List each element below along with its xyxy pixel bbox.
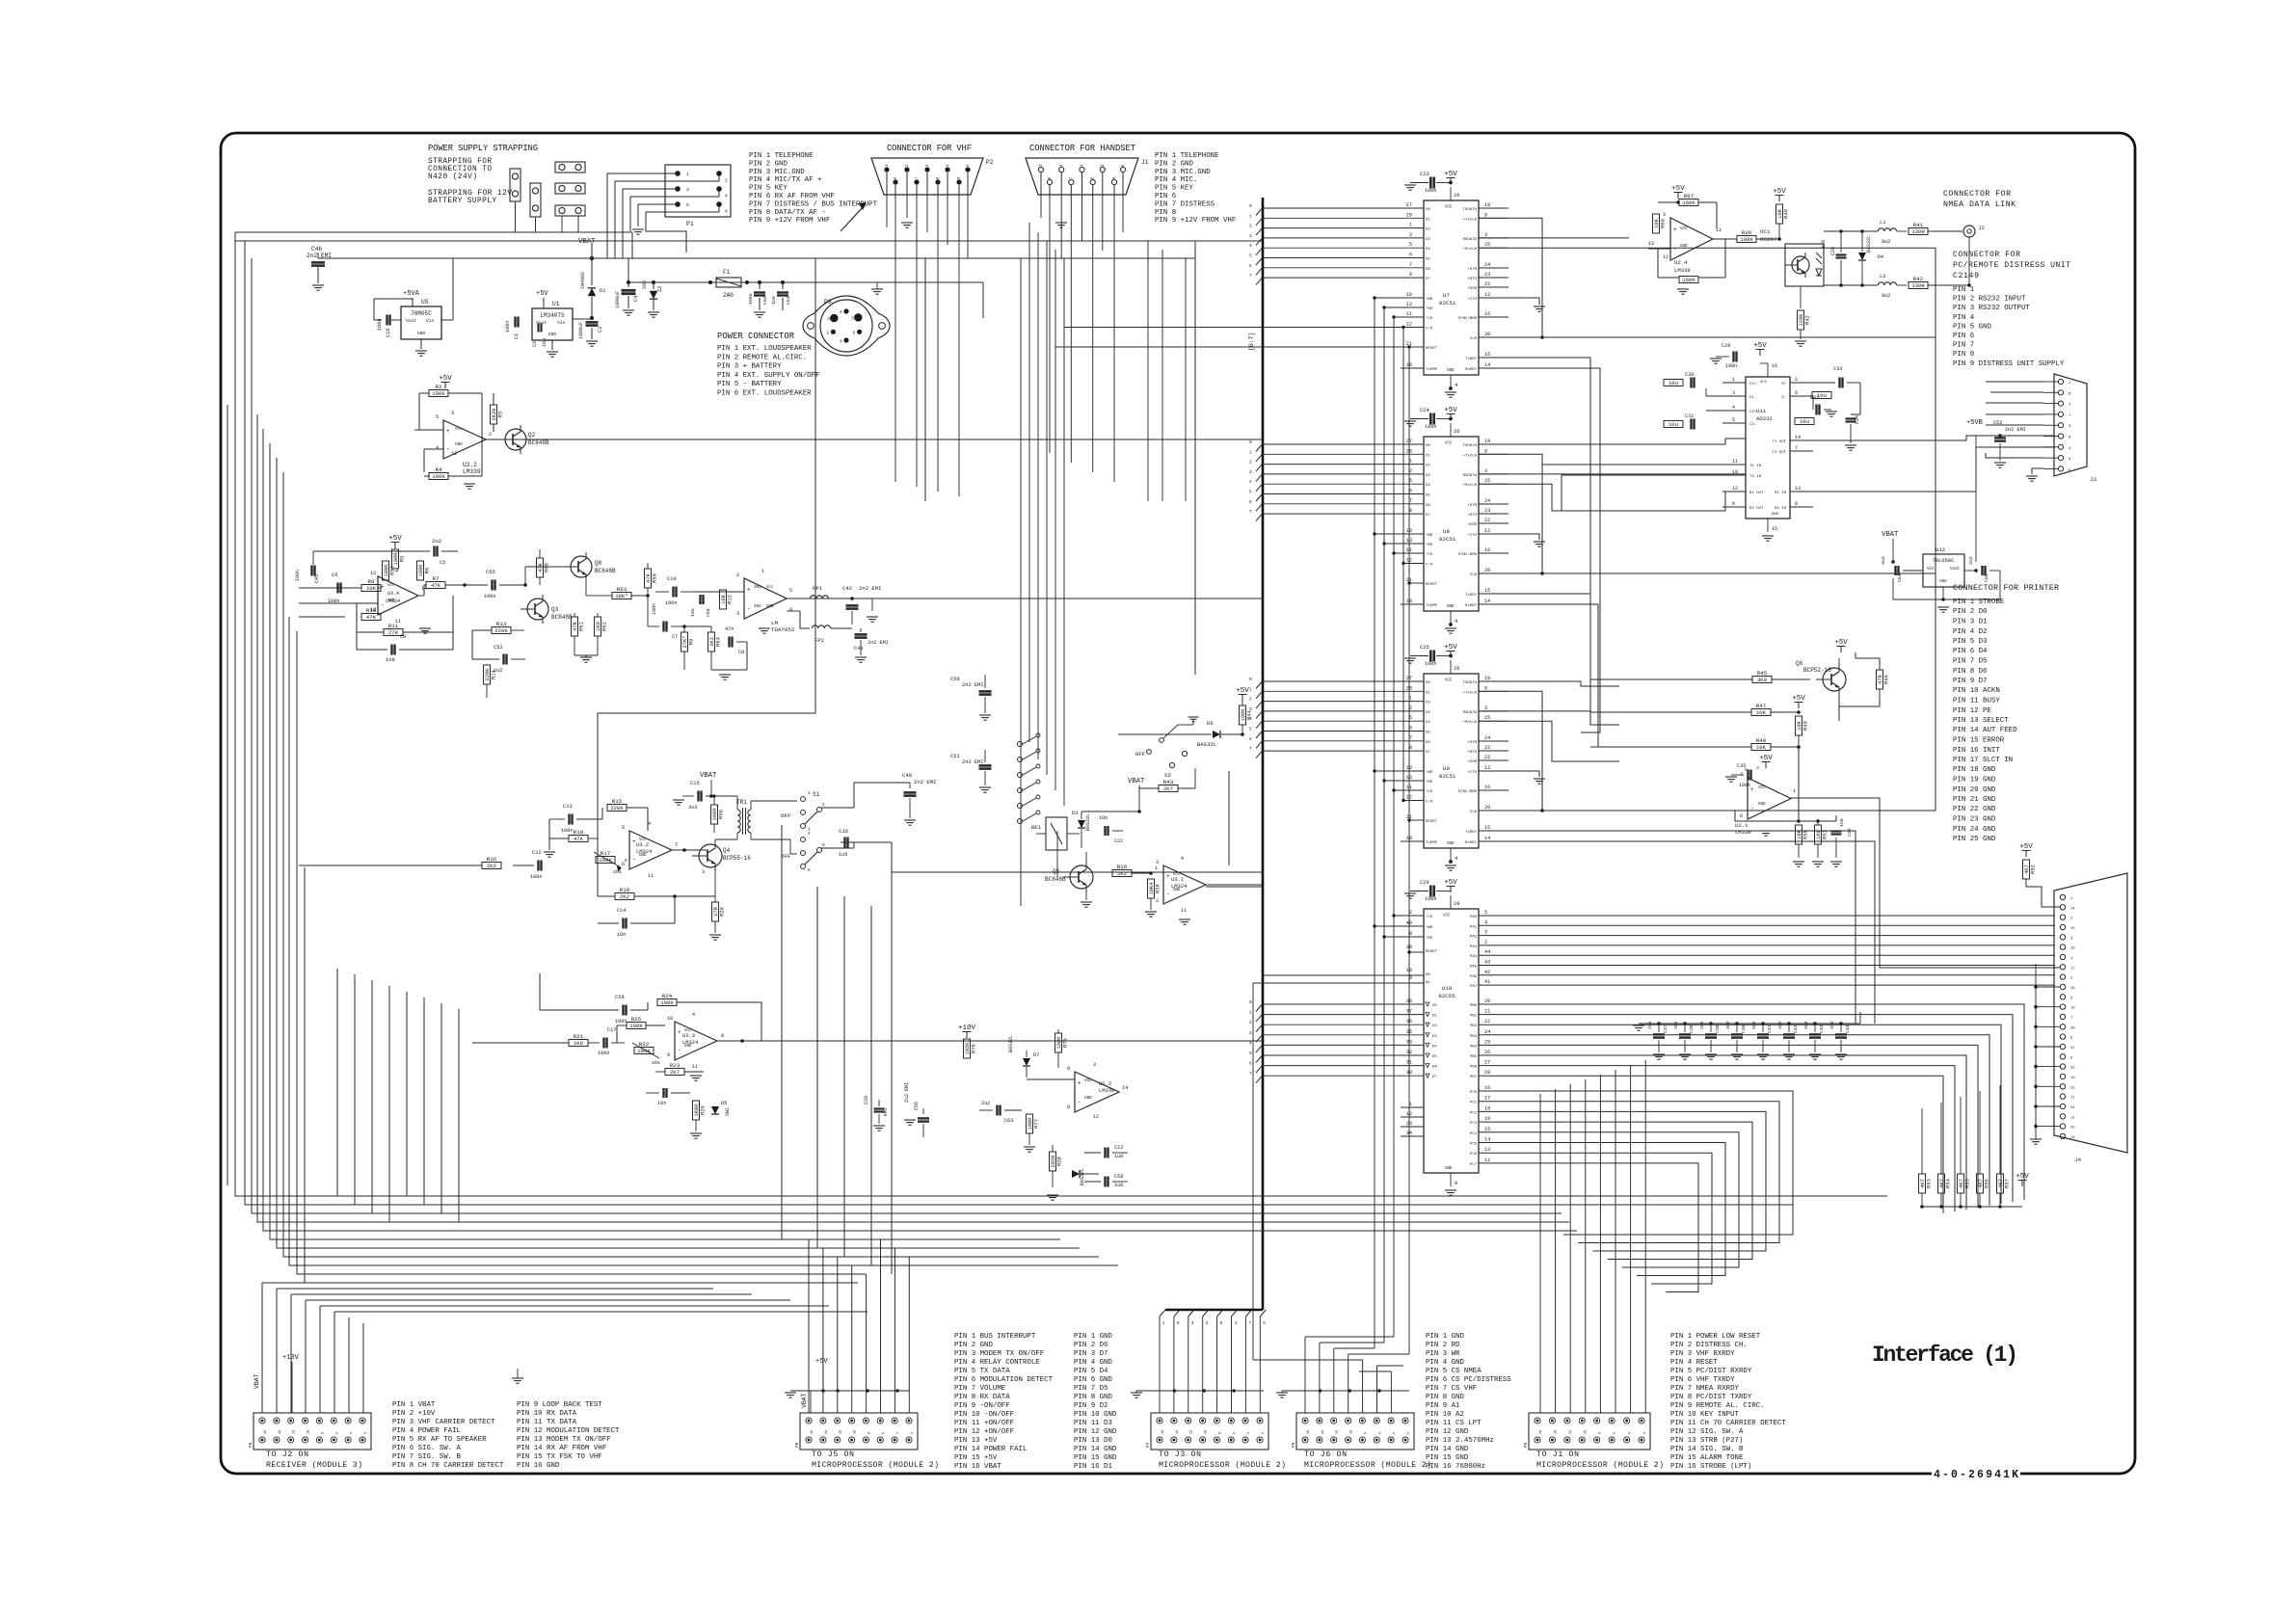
svg-text:POWER SUPPLY STRAPPING: POWER SUPPLY STRAPPING	[428, 144, 538, 153]
svg-text:R1 OUT: R1 OUT	[1749, 492, 1764, 495]
svg-text:24: 24	[1484, 1029, 1490, 1035]
svg-text:100n: 100n	[1425, 661, 1436, 667]
svg-text:2u2: 2u2	[1968, 556, 1974, 565]
svg-text:4: 4	[840, 310, 842, 315]
ground Q4	[709, 934, 721, 936]
svg-text:10u: 10u	[542, 338, 547, 347]
svg-text:47K: 47K	[538, 562, 544, 572]
svg-text:RXDATA: RXDATA	[1463, 238, 1478, 242]
svg-text:2K2: 2K2	[487, 863, 496, 869]
svg-text:16: 16	[1161, 1430, 1165, 1434]
svg-text:PB5: PB5	[1470, 1055, 1478, 1059]
capacitor C18	[386, 315, 387, 326]
svg-text:13: 13	[1648, 241, 1654, 247]
svg-text:20: 20	[1484, 998, 1490, 1004]
svg-text:U2.2: U2.2	[463, 462, 477, 468]
svg-text:C38: C38	[1689, 1024, 1695, 1033]
wire bus turn	[1165, 1309, 1263, 1311]
svg-text:IN1: IN1	[754, 586, 761, 590]
svg-text:PIN 4 GND: PIN 4 GND	[1074, 1359, 1112, 1367]
svg-text:R2 OUT: R2 OUT	[1749, 507, 1764, 511]
svg-text:PIN 2 GND: PIN 2 GND	[1155, 160, 1193, 168]
svg-text:10: 10	[1732, 469, 1738, 475]
svg-text:VBAT: VBAT	[1882, 531, 1899, 539]
svg-text:3: 3	[827, 317, 830, 322]
svg-text:37: 37	[1406, 1009, 1412, 1015]
svg-text:C56: C56	[914, 1102, 920, 1110]
svg-text:2n2: 2n2	[1829, 1021, 1835, 1029]
svg-text:10: 10	[854, 1430, 858, 1434]
regulator U12 78L05AC	[1923, 554, 1964, 587]
svg-text:3: 3	[1484, 705, 1487, 711]
capacitor C52	[502, 654, 504, 665]
svg-text:2K2: 2K2	[620, 893, 629, 900]
svg-text:48: 48	[1406, 920, 1412, 926]
svg-text:18: 18	[2070, 987, 2075, 991]
ground C50	[979, 714, 991, 716]
wire s1 net	[821, 807, 854, 809]
svg-text:EMI: EMI	[883, 1107, 889, 1116]
resistor R9	[681, 632, 688, 652]
svg-text:R17: R17	[601, 850, 611, 857]
svg-text:PIN 10 ACKN: PIN 10 ACKN	[1953, 687, 2000, 695]
svg-text:PIN 5 TX DATA: PIN 5 TX DATA	[954, 1368, 1010, 1375]
svg-text:FP1: FP1	[813, 585, 823, 592]
svg-text:PIN 6 VHF TXRDY: PIN 6 VHF TXRDY	[1670, 1376, 1735, 1384]
svg-text:D3: D3	[1426, 238, 1430, 242]
svg-text:VCC: VCC	[1760, 381, 1768, 385]
svg-text:PIN 9 +12V FROM VHF: PIN 9 +12V FROM VHF	[749, 217, 830, 225]
svg-text:3: 3	[702, 869, 705, 875]
svg-text:VBAT: VBAT	[1128, 778, 1145, 785]
svg-text:Vout: Vout	[1950, 568, 1961, 572]
svg-text:PIN 5 KEY: PIN 5 KEY	[1155, 185, 1193, 193]
svg-text:PIN 6 SIG. SW. A: PIN 6 SIG. SW. A	[392, 1445, 462, 1452]
svg-text:1: 1	[1249, 687, 1252, 692]
svg-text:PIN 2 GND: PIN 2 GND	[749, 160, 788, 168]
wire analog drops	[336, 969, 338, 1196]
svg-text:D5: D5	[1426, 732, 1430, 735]
svg-text:100n: 100n	[1425, 188, 1436, 194]
svg-text:20: 20	[1484, 805, 1490, 811]
ground C13	[544, 851, 555, 853]
svg-text:PIN 4 GND: PIN 4 GND	[1426, 1359, 1464, 1367]
wire U7 rxclk net	[1479, 248, 1936, 337]
svg-text:*WR: *WR	[1426, 297, 1433, 302]
wire mid column	[1020, 258, 1022, 906]
svg-text:16: 16	[1539, 1430, 1543, 1434]
capacitor C4	[627, 280, 630, 284]
svg-text:2n2 EMI: 2n2 EMI	[914, 779, 937, 785]
svg-text:1: 1	[1155, 865, 1158, 871]
capacitor C42	[850, 597, 854, 600]
svg-text:42: 42	[1484, 970, 1490, 975]
svg-text:24: 24	[1484, 498, 1490, 504]
diode D7	[1023, 1058, 1030, 1066]
svg-text:OFF: OFF	[781, 812, 791, 819]
resistor R38	[1737, 236, 1756, 243]
svg-text:Q6: Q6	[1796, 660, 1803, 667]
svg-text:C58: C58	[1114, 1174, 1123, 1180]
svg-text:C13: C13	[563, 804, 573, 810]
svg-text:4: 4	[896, 1432, 900, 1434]
svg-text:-: -	[381, 601, 385, 608]
svg-text:BC848B: BC848B	[528, 439, 549, 446]
svg-text:R67: R67	[1684, 193, 1695, 200]
svg-text:+CTS: +CTS	[1467, 534, 1477, 538]
svg-text:C54: C54	[706, 608, 711, 617]
svg-text:R42: R42	[1805, 315, 1811, 325]
svg-text:PIN 14 GND: PIN 14 GND	[1074, 1446, 1117, 1453]
svg-text:PIN 7 DISTRESS / BUS INTERRU: PIN 7 DISTRESS / BUS INTERRUPT	[749, 200, 878, 208]
wire U7 txrdy net	[1479, 358, 1590, 679]
resistor R4	[429, 473, 448, 480]
svg-text:D0: D0	[1426, 681, 1430, 685]
IC U11 AD232	[1746, 377, 1790, 519]
svg-text:C1-: C1-	[1749, 396, 1756, 400]
svg-text:6: 6	[1795, 390, 1798, 396]
op-amp U2.3	[1075, 1072, 1119, 1112]
svg-text:5: 5	[822, 843, 825, 848]
svg-text:PIN 13 D0: PIN 13 D0	[1074, 1437, 1112, 1445]
svg-text:3u3: 3u3	[688, 805, 697, 811]
svg-text:LM324: LM324	[386, 599, 400, 604]
svg-text:PIN 15 ERROR: PIN 15 ERROR	[1953, 737, 2005, 745]
svg-text:C61: C61	[786, 296, 791, 305]
wire u21 minus	[1735, 810, 1748, 811]
svg-text:CLK: CLK	[1470, 337, 1478, 341]
capacitor C65	[1981, 566, 1983, 575]
svg-text:R4: R4	[436, 466, 442, 473]
svg-text:PIN 4 D2: PIN 4 D2	[1953, 628, 1987, 636]
strap pad C	[555, 162, 585, 173]
svg-text:D7: D7	[1033, 1052, 1039, 1058]
svg-text:12: 12	[1732, 486, 1738, 492]
svg-text:PIN 1 TELEPHONE: PIN 1 TELEPHONE	[1155, 152, 1219, 160]
ground C56	[904, 1119, 916, 1121]
ground U2.2	[464, 483, 475, 485]
svg-text:R46: R46	[1884, 675, 1890, 684]
svg-text:Z2: Z2	[657, 286, 663, 292]
ground P6	[785, 1392, 796, 1394]
svg-text:3K3: 3K3	[709, 637, 715, 647]
resistor R3	[491, 405, 497, 424]
svg-text:23: 23	[1484, 745, 1490, 751]
svg-text:PIN 14 RX AF FROM VHF: PIN 14 RX AF FROM VHF	[517, 1445, 606, 1452]
svg-text:2K20: 2K20	[492, 409, 497, 421]
svg-text:16: 16	[2070, 947, 2075, 951]
svg-text:2n2 EMI: 2n2 EMI	[868, 640, 889, 646]
svg-text:3: 3	[736, 611, 739, 617]
ground R26	[690, 1132, 702, 1134]
svg-text:31: 31	[1406, 1060, 1412, 1066]
svg-text:4K7: 4K7	[1998, 1179, 2004, 1188]
ground near P3	[871, 288, 883, 290]
svg-text:Interface (1): Interface (1)	[1872, 1343, 2018, 1368]
svg-text:Vcc: Vcc	[387, 584, 395, 588]
svg-text:3: 3	[1249, 1031, 1252, 1036]
resistor R41	[1909, 228, 1928, 235]
svg-text:C42: C42	[1793, 1024, 1799, 1033]
svg-text:C41: C41	[1767, 1024, 1773, 1033]
svg-text:D5: D5	[1426, 494, 1430, 498]
svg-text:D6: D6	[1207, 720, 1214, 727]
svg-text:4: 4	[1455, 383, 1457, 388]
svg-text:C36: C36	[1847, 828, 1853, 837]
svg-text:D0: D0	[1432, 1004, 1437, 1008]
wire strap pads	[561, 216, 563, 232]
svg-text:RESET: RESET	[1426, 820, 1438, 824]
wire c30 pins	[1722, 382, 1723, 384]
svg-text:3: 3	[1484, 232, 1487, 238]
svg-text:1K8: 1K8	[574, 1040, 583, 1047]
svg-text:11: 11	[1484, 1157, 1490, 1163]
wire u4 io	[694, 591, 744, 593]
svg-text:BC848B: BC848B	[595, 568, 616, 574]
diode D6	[1213, 731, 1220, 738]
svg-text:2: 2	[1249, 461, 1252, 466]
svg-text:1000uF: 1000uF	[615, 291, 621, 308]
svg-text:R15: R15	[612, 798, 623, 805]
svg-text:-: -	[1078, 1099, 1081, 1105]
svg-text:PC6: PC6	[1470, 1153, 1478, 1157]
wire u1 in	[573, 323, 592, 325]
svg-text:R45: R45	[1757, 670, 1768, 677]
svg-text:47K: 47K	[366, 614, 377, 621]
wire P5 drops	[261, 1283, 263, 1413]
connector J4	[2054, 873, 2127, 1153]
svg-text:R57: R57	[2005, 1179, 2011, 1188]
ground OC1	[1795, 340, 1806, 342]
svg-text:D6: D6	[1426, 504, 1430, 508]
svg-text:P7: P7	[1145, 1442, 1151, 1448]
svg-text:PIN 6: PIN 6	[1155, 193, 1176, 200]
svg-text:10K: 10K	[1797, 720, 1802, 730]
ground U12	[1937, 606, 1949, 608]
svg-text:5: 5	[1249, 491, 1252, 495]
svg-text:100n: 100n	[505, 321, 511, 333]
svg-text:TxRDY: TxRDY	[1465, 594, 1478, 598]
svg-text:4: 4	[436, 445, 439, 451]
svg-text:100K: 100K	[1056, 1036, 1062, 1050]
svg-text:C3: C3	[598, 327, 603, 333]
svg-text:330R: 330R	[1911, 228, 1925, 235]
svg-text:R20: R20	[720, 907, 726, 917]
resistor R20	[712, 902, 719, 921]
svg-text:3: 3	[1732, 390, 1735, 396]
svg-text:C40: C40	[1741, 1024, 1747, 1033]
svg-text:C52: C52	[494, 645, 503, 651]
svg-text:100K: 100K	[432, 473, 445, 480]
svg-text:10u: 10u	[1669, 380, 1678, 386]
diode D8	[1072, 1170, 1080, 1178]
wire P2 pin drops	[886, 173, 888, 195]
svg-text:100K: 100K	[1682, 277, 1695, 283]
capacitor C3	[586, 321, 599, 324]
svg-text:100n: 100n	[1739, 783, 1750, 788]
wire q5	[1085, 852, 1087, 862]
svg-text:2: 2	[822, 803, 825, 808]
capacitor C2	[537, 324, 539, 333]
svg-text:100n: 100n	[295, 570, 301, 581]
wire u24 in	[1629, 237, 1670, 239]
svg-text:PIN 7 VOLUME: PIN 7 VOLUME	[954, 1385, 1006, 1393]
svg-text:+5V: +5V	[1671, 185, 1685, 193]
svg-text:R55: R55	[1965, 1179, 1971, 1188]
svg-text:D1: D1	[600, 288, 605, 294]
svg-text:VCC: VCC	[1084, 1078, 1092, 1083]
svg-text:PIN 6 RX AF FROM VHF: PIN 6 RX AF FROM VHF	[749, 193, 835, 200]
resistor R18b	[569, 836, 588, 842]
connector P3	[803, 296, 890, 356]
svg-text:4K7: 4K7	[1978, 1179, 1984, 1188]
svg-text:100K: 100K	[432, 390, 445, 397]
svg-text:PIN 15 TX FSK TO VHF: PIN 15 TX FSK TO VHF	[517, 1453, 602, 1461]
wire U8 clk net	[1479, 337, 1936, 573]
svg-text:R56: R56	[1985, 1179, 1990, 1188]
svg-text:BAS32L: BAS32L	[1085, 813, 1091, 831]
diode D4	[1858, 253, 1866, 260]
svg-text:LM: LM	[771, 620, 778, 626]
svg-text:+: +	[1750, 786, 1754, 793]
svg-text:4: 4	[1249, 244, 1252, 249]
svg-text:11: 11	[2070, 1097, 2075, 1101]
svg-text:NMEA DATA LINK: NMEA DATA LINK	[1943, 200, 2016, 209]
svg-text:15: 15	[1484, 588, 1490, 594]
svg-text:23: 23	[2070, 1086, 2075, 1090]
svg-text:PB0: PB0	[1470, 1004, 1478, 1008]
ground C42	[867, 616, 878, 618]
svg-text:+TxCLK: +TxCLK	[1463, 218, 1478, 222]
connector P6 (to J5)	[800, 1413, 918, 1450]
wire U9 txclk net	[1479, 691, 1542, 811]
svg-text:15: 15	[1772, 526, 1777, 532]
svg-text:PIN 6 EXT. LOUDSPEAKER: PIN 6 EXT. LOUDSPEAKER	[717, 390, 812, 398]
svg-text:12: 12	[293, 1430, 297, 1434]
svg-text:OFF: OFF	[781, 853, 791, 860]
transistor Q4	[699, 844, 722, 867]
wire left bundle	[235, 232, 1887, 1196]
wire P9 fan	[1539, 1094, 1541, 1413]
svg-text:7: 7	[1249, 747, 1252, 752]
resistor R15	[607, 805, 627, 811]
resistor R23b	[665, 1069, 684, 1076]
svg-text:10K: 10K	[1756, 744, 1767, 751]
svg-text:15: 15	[1484, 825, 1490, 831]
svg-text:R16: R16	[487, 856, 497, 863]
svg-text:20: 20	[1484, 332, 1490, 337]
capacitor C22b	[1104, 826, 1106, 836]
svg-text:0: 0	[1249, 678, 1252, 682]
svg-text:PIN 4 MIC.: PIN 4 MIC.	[1155, 176, 1197, 184]
svg-text:12: 12	[1093, 1114, 1099, 1120]
svg-text:10u: 10u	[690, 608, 696, 617]
wire u10 port nets	[1479, 915, 2055, 917]
svg-text:16: 16	[1484, 1085, 1490, 1091]
wire caps rail	[1639, 1023, 1860, 1024]
wire battery rail2	[627, 258, 629, 282]
svg-text:RECEIVER (MODULE 3): RECEIVER (MODULE 3)	[266, 1460, 362, 1470]
svg-text:PIN 17 SLCT IN: PIN 17 SLCT IN	[1953, 757, 2013, 764]
capacitor C19	[662, 1088, 664, 1098]
svg-text:4: 4	[1181, 856, 1184, 862]
svg-text:+5V: +5V	[2019, 843, 2033, 851]
svg-text:PIN 2 D6: PIN 2 D6	[1074, 1342, 1108, 1349]
svg-text:5: 5	[1409, 242, 1412, 248]
svg-text:S1: S1	[813, 791, 820, 798]
svg-text:OC1: OC1	[1760, 228, 1771, 235]
svg-text:14: 14	[1484, 836, 1490, 841]
svg-text:PB4: PB4	[1470, 1045, 1478, 1049]
svg-text:RxRDY: RxRDY	[1465, 841, 1478, 845]
svg-text:1n8: 1n8	[1821, 240, 1827, 249]
resistor R11	[384, 629, 403, 636]
svg-text:R76: R76	[972, 1044, 977, 1053]
transistor Q5	[1070, 865, 1093, 889]
svg-text:1: 1	[1249, 214, 1252, 219]
svg-text:C12: C12	[532, 850, 542, 856]
svg-text:CLK: CLK	[1470, 573, 1478, 577]
svg-text:36: 36	[1406, 1019, 1412, 1024]
resistor R50	[1796, 825, 1802, 844]
ground C51	[979, 786, 991, 788]
svg-text:5: 5	[1249, 254, 1252, 259]
svg-text:VCC: VCC	[1443, 915, 1451, 918]
svg-text:PIN 3 RS232 OUTPUT: PIN 3 RS232 OUTPUT	[1953, 305, 2030, 312]
svg-text:25%: 25%	[652, 1060, 660, 1066]
wire c5	[313, 550, 430, 552]
svg-text:PA0: PA0	[1470, 916, 1478, 919]
resistor R75	[1055, 1033, 1062, 1052]
svg-text:8: 8	[868, 1432, 871, 1434]
svg-text:P5: P5	[248, 1442, 254, 1448]
resistor R77	[1027, 1114, 1033, 1133]
resistors R53-R57	[1919, 1174, 1926, 1193]
svg-text:*RD: *RD	[1426, 306, 1433, 311]
svg-text:PIN 9 DISTRESS UNIT SUPPLY: PIN 9 DISTRESS UNIT SUPPLY	[1953, 360, 2065, 368]
svg-text:6: 6	[1263, 1321, 1266, 1326]
capacitor C36	[1831, 830, 1842, 832]
svg-text:8: 8	[321, 1432, 325, 1434]
ground C3	[586, 340, 598, 342]
svg-text:38: 38	[1406, 998, 1412, 1004]
svg-text:5: 5	[622, 825, 625, 831]
svg-text:C50: C50	[950, 677, 960, 682]
svg-text:+: +	[446, 428, 450, 435]
svg-text:9: 9	[1484, 212, 1487, 218]
svg-text:43: 43	[1484, 960, 1490, 966]
svg-text:C2: C2	[532, 341, 538, 347]
resistor R63	[612, 593, 631, 599]
svg-text:-: -	[632, 856, 636, 863]
resistor R28	[1050, 1152, 1056, 1171]
svg-text:J1: J1	[1141, 159, 1149, 166]
svg-text:R41: R41	[1913, 222, 1924, 228]
svg-text:+5VB: +5VB	[1966, 419, 1983, 427]
svg-text:PIN 5 GND: PIN 5 GND	[1953, 323, 1991, 331]
ground U3.1	[1179, 918, 1190, 920]
svg-text:R29: R29	[1117, 864, 1128, 870]
resistor R21	[569, 1040, 588, 1047]
svg-text:RxRDY: RxRDY	[1465, 604, 1478, 608]
svg-text:7: 7	[1795, 445, 1798, 451]
svg-text:TXDATA: TXDATA	[1463, 208, 1478, 212]
svg-text:C14: C14	[617, 908, 626, 914]
svg-text:PIN 23 GND: PIN 23 GND	[1953, 816, 1996, 824]
ground R64	[719, 674, 731, 676]
svg-text:BAS32L: BAS32L	[1866, 235, 1872, 253]
svg-text:10: 10	[1406, 968, 1412, 973]
